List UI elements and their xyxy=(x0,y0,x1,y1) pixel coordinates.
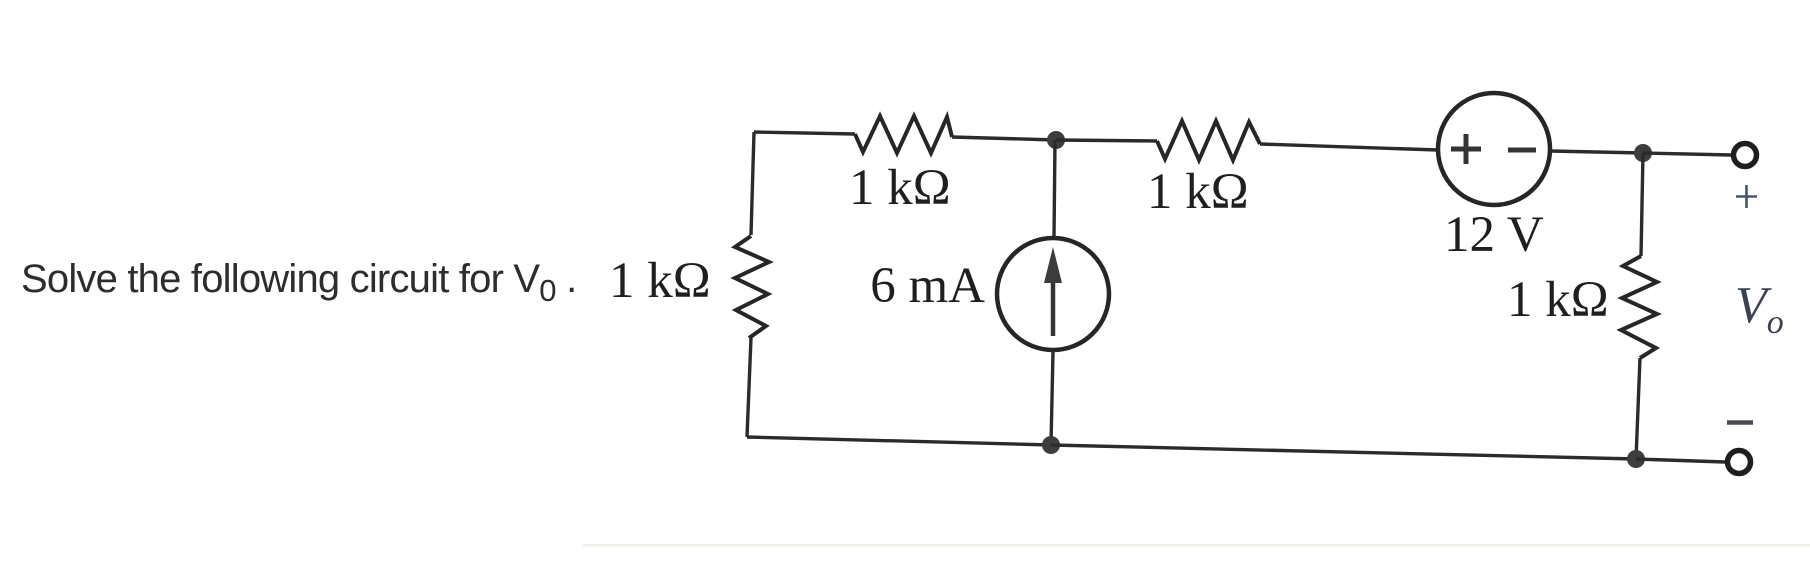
resistor R1 (top-left horizontal 1 kOhm) xyxy=(855,116,952,153)
resistor R3 (top-middle horizontal 1 kOhm) xyxy=(1157,121,1260,160)
node B junction dot xyxy=(1634,144,1652,162)
wire: node C to output terminal minus xyxy=(1636,459,1725,462)
node A junction dot xyxy=(1047,131,1065,149)
bottom wire: node D to node C xyxy=(1051,445,1636,459)
wire: voltage source V1 to node B xyxy=(1550,151,1643,153)
current source I1 arrow shaft xyxy=(1051,278,1056,336)
wire: node A to resistor R3 xyxy=(1056,140,1157,141)
svg-text:1 kΩ: 1 kΩ xyxy=(1147,164,1249,220)
current source I1 arrow head xyxy=(1044,247,1062,283)
wire: R4 to bottom node C xyxy=(1636,358,1640,459)
scan artifact faint line bottom xyxy=(583,544,1810,547)
resistor R2 (left vertical 1 kOhm) xyxy=(735,236,769,338)
wire: current source I1 to bottom wire xyxy=(1051,351,1053,445)
wire: left vertical top segment xyxy=(751,132,754,235)
plus polarity mark at output xyxy=(1736,185,1757,208)
output terminal minus (open circle) xyxy=(1728,451,1751,474)
wire: node B to output terminal plus xyxy=(1643,153,1731,155)
wire: left vertical bottom segment xyxy=(747,338,751,437)
wire: node B down to resistor R4 xyxy=(1641,153,1643,256)
svg-text:1 kΩ: 1 kΩ xyxy=(849,160,951,216)
current source I1 circle (6 mA) xyxy=(997,238,1109,350)
svg-text:6 mA: 6 mA xyxy=(870,258,985,314)
wire: node A down to current source I1 xyxy=(1054,140,1055,238)
node C junction dot xyxy=(1627,450,1645,468)
output terminal plus (open circle) xyxy=(1734,144,1757,167)
wire: top-left corner to resistor R1 xyxy=(754,132,855,134)
voltage source V1 minus sign xyxy=(1508,148,1536,153)
svg-text:12 V: 12 V xyxy=(1444,207,1544,263)
wire: R1 to node A xyxy=(952,137,1056,140)
node D junction dot xyxy=(1042,436,1060,454)
svg-text:1 kΩ: 1 kΩ xyxy=(1507,272,1609,328)
svg-text:Solve the following circuit fo: Solve the following circuit for V0 . xyxy=(21,257,576,308)
voltage source V1 circle (12 V) xyxy=(1438,93,1550,205)
bottom wire: left corner to node D xyxy=(747,437,1051,445)
minus polarity mark at output xyxy=(1727,420,1753,425)
wire: R3 to voltage source V1 xyxy=(1260,144,1438,150)
voltage source V1 plus sign xyxy=(1451,134,1481,164)
svg-text:1 kΩ: 1 kΩ xyxy=(609,253,711,309)
resistor R4 (right vertical 1 kOhm) xyxy=(1621,256,1657,358)
